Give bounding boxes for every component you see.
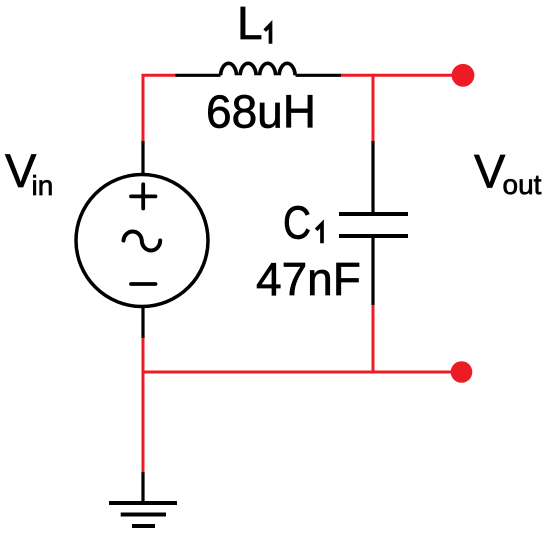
inductor L1 (221, 63, 296, 75)
node Vout top terminal (red dot) (452, 64, 475, 87)
wire black source top lead (141, 141, 144, 176)
wire top-left red (corner + horizontal) (143, 75, 177, 141)
svg-text:V: V (474, 145, 506, 198)
capacitor C1 bottom plate (339, 234, 408, 238)
wire black C1 bottom lead (371, 238, 374, 305)
plus sign (131, 184, 156, 208)
wire red left vertical to ground (142, 338, 145, 472)
svg-text:L: L (237, 0, 263, 49)
wire red branch down to C1 (372, 74, 375, 141)
svg-text:47nF: 47nF (256, 253, 361, 305)
wire black ground lead (141, 472, 144, 503)
sine symbol (124, 232, 161, 251)
wire top black lead right of L1 (296, 74, 342, 77)
ground (109, 503, 177, 526)
svg-text:68uH: 68uH (206, 86, 316, 138)
source U1 circle (AC source) (76, 175, 208, 307)
svg-text:out: out (503, 169, 542, 200)
node Vout bottom terminal (red dot) (451, 361, 473, 383)
wire black C1 top lead (371, 141, 374, 212)
wire red C1 to bottom rail (372, 305, 375, 372)
svg-text:C: C (283, 197, 311, 249)
wire top red to output node (341, 74, 460, 77)
wire black source bottom lead (141, 306, 144, 338)
minus sign (131, 282, 156, 286)
svg-text:in: in (32, 170, 54, 201)
capacitor C1 top plate (339, 212, 408, 216)
wire top black lead left of L1 (176, 74, 221, 77)
wire bottom rail red (143, 371, 460, 374)
